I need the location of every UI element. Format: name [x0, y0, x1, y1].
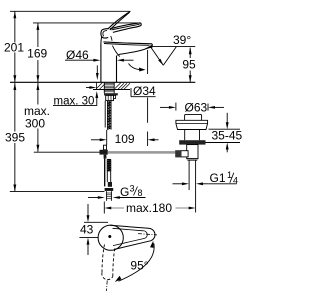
dim 169 line — [37, 23, 39, 47]
svg-text:Ø63: Ø63 — [185, 101, 208, 115]
hose end knob — [108, 182, 112, 187]
svg-text:max.180: max.180 — [126, 201, 172, 215]
lift rod upper segment — [104, 101, 106, 128]
mounting nut — [106, 95, 114, 100]
svg-text:8: 8 — [138, 188, 143, 198]
curved arrow in spout — [129, 64, 144, 70]
svg-text:169: 169 — [27, 47, 47, 61]
svg-text:300: 300 — [25, 117, 45, 131]
Ø46 right-side arrow — [123, 59, 134, 61]
horizontal pull rod (gray) to waste — [108, 151, 176, 154]
95 deg swivel arc — [119, 243, 155, 281]
faucet: spout underside — [118, 46, 153, 56]
faucet: body sides — [100, 44, 102, 82]
dim 395 line (below deck continuation of x=14.85) — [14, 83, 16, 132]
deck section slab + hatching — [96, 82, 98, 89]
faucet: spout tip — [151, 44, 154, 46]
washer under deck — [104, 93, 118, 95]
dim max.180 — [103, 202, 105, 214]
waste: neck — [184, 130, 186, 141]
waste: side inlet knob — [181, 151, 188, 157]
waste: seal collar — [179, 140, 205, 144]
svg-text:395: 395 — [5, 131, 25, 145]
deck / counter line — [10, 81, 195, 83]
extension line lift-rod level (for max300) — [34, 151, 100, 153]
svg-text:3: 3 — [130, 184, 135, 194]
extension line lever rest top — [33, 22, 141, 24]
svg-text:95°: 95° — [130, 259, 148, 273]
faucet: raised lever blade (thin) — [108, 11, 131, 29]
dim 95 — [189, 48, 191, 58]
svg-text:39°: 39° — [173, 33, 191, 47]
waste: pop-up plug above flange — [185, 114, 202, 120]
svg-text:Ø46: Ø46 — [66, 48, 89, 62]
top view: axis dash-dot — [138, 234, 157, 235]
dim 109 — [106, 130, 108, 145]
svg-text:201: 201 — [4, 40, 24, 54]
svg-text:G1: G1 — [210, 171, 226, 185]
hose coil — [107, 160, 111, 171]
small arrow at deck section — [86, 87, 91, 89]
lift rod (vertical) — [104, 159, 106, 187]
top view: lever/spout stadium — [110, 225, 155, 249]
label G1 1/4 with arrows — [173, 183, 184, 185]
faucet: lever at rest — [110, 23, 141, 33]
faucet: body neck right — [111, 36, 112, 41]
lift rod fitting (cross) — [104, 145, 107, 150]
top view: body circle — [98, 225, 123, 250]
shank through deck (threads) — [103, 82, 105, 93]
dim max300 line (below deck continuation of x=37.9) — [37, 83, 39, 105]
hose tube — [106, 171, 108, 182]
threaded rod below nut (coil) — [107, 101, 111, 130]
small down arrow at base — [96, 65, 98, 74]
waste: tailpipe — [188, 160, 190, 190]
top view: rotated spout (dashed) — [102, 245, 105, 273]
aerator extension line (x=147.6 above) — [147, 50, 149, 74]
hose nut — [105, 188, 114, 191]
label Ø34 — [130, 88, 132, 97]
faucet: body neck left — [100, 37, 103, 44]
svg-text:35-45: 35-45 — [212, 129, 243, 143]
svg-text:G: G — [120, 185, 129, 199]
dim 201 line — [14, 11, 16, 42]
svg-text:95: 95 — [182, 58, 196, 72]
svg-text:109: 109 — [115, 132, 135, 146]
extension line hose-end level (for 395) — [10, 190, 105, 192]
faucet: spout top edge — [103, 42, 152, 44]
dim Ø63 — [175, 103, 177, 111]
faucet: knuckle (pivot) — [101, 29, 108, 38]
39 degree leader line — [153, 46, 196, 48]
hose G3/8 threaded end — [106, 191, 108, 201]
svg-text:43: 43 — [80, 223, 94, 237]
waste: body — [187, 145, 198, 159]
extension line top (overall height ref) — [10, 10, 130, 12]
39 ray down-right — [151, 47, 164, 66]
dim 35-45 — [209, 128, 241, 130]
top view: 43 dim — [87, 204, 89, 216]
svg-text:Ø34: Ø34 — [133, 84, 156, 98]
waste: flange — [176, 120, 208, 129]
label G3/8 with arrows — [88, 197, 99, 199]
